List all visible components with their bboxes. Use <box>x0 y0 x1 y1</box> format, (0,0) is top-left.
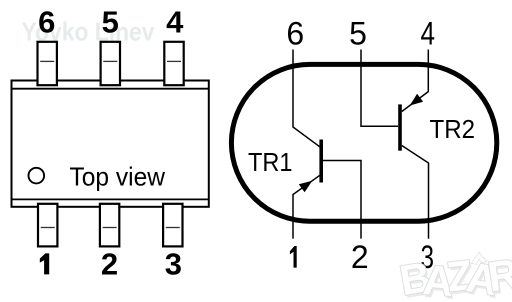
pin 1 bend line <box>41 227 55 229</box>
wire pin 1 (TR1 emitter) <box>293 175 320 238</box>
pin 6 bend line <box>40 60 54 62</box>
watermark BAZAR logo <box>396 250 512 302</box>
svg-text:4: 4 <box>166 5 184 40</box>
pin 5 lead (top-middle) <box>101 42 120 85</box>
schematic outline (stadium) <box>231 64 496 221</box>
svg-text:5: 5 <box>102 5 119 40</box>
svg-text:6: 6 <box>38 5 55 40</box>
TR1 emitter arrow <box>299 181 313 193</box>
svg-text:3: 3 <box>165 247 182 282</box>
pin 3 bend line <box>166 227 180 229</box>
package inner line top <box>12 88 209 90</box>
svg-text:4: 4 <box>420 16 435 52</box>
svg-text:TR1: TR1 <box>248 149 293 177</box>
pin 1 lead (bottom-left) <box>38 204 57 247</box>
pin number 1 (schematic) <box>290 246 297 268</box>
svg-text:2: 2 <box>351 239 369 275</box>
pin 3 lead (bottom-right) <box>163 204 182 247</box>
wire pin 3 (TR2 collector) <box>402 146 429 239</box>
svg-text:TR2: TR2 <box>430 116 476 144</box>
svg-text:2: 2 <box>101 247 118 282</box>
transistor TR1 base bar <box>319 140 323 183</box>
package inner line bottom <box>12 198 209 200</box>
wire pin 5 (TR2 base) <box>361 50 398 127</box>
pin 6 lead (top-left) <box>38 42 57 85</box>
transistor TR2 base bar <box>398 104 402 150</box>
pin 2 lead (bottom-middle) <box>100 204 119 247</box>
package body (top view) <box>12 81 209 207</box>
svg-text:6: 6 <box>286 16 304 52</box>
svg-text:5: 5 <box>349 16 367 52</box>
wire pin 4 (TR2 emitter) <box>402 50 429 112</box>
pin 1 marker circle <box>29 168 45 184</box>
pin 5 bend line <box>103 60 117 62</box>
pin number 1 (package) <box>40 253 49 274</box>
svg-text:Top view: Top view <box>70 162 166 192</box>
pin 4 bend line <box>167 60 181 62</box>
pin 2 bend line <box>103 227 117 229</box>
TR2 emitter arrow <box>410 94 423 106</box>
pin 4 lead (top-right) <box>164 42 183 85</box>
wire pin 6 <box>293 50 320 147</box>
wire pin 2 (TR1 base) <box>323 161 361 239</box>
